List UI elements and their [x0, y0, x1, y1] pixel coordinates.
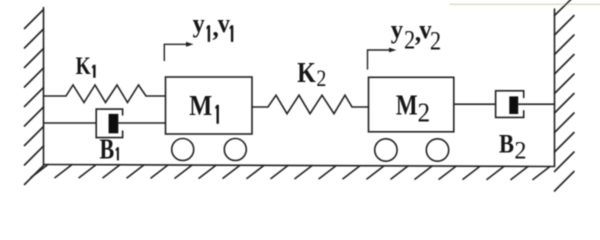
svg-text:M: M: [189, 89, 212, 121]
damper B1 piston: [109, 114, 119, 133]
damper B2 cylinder: [496, 91, 524, 118]
mass M2: [369, 77, 454, 132]
label B2: [499, 130, 527, 165]
mass M1: [166, 77, 253, 134]
damper B2 piston: [509, 96, 518, 114]
wheel M1 left: [172, 139, 194, 161]
decorative khaki line top right: [450, 3, 600, 5]
damper B2 rod left: [454, 103, 496, 105]
damper B1 cylinder: [96, 109, 122, 138]
arrow y2,v2: [368, 48, 397, 69]
label K1: [76, 52, 96, 80]
right wall: [554, 9, 556, 166]
wheel M1 right: [224, 139, 246, 161]
svg-text:2: 2: [404, 26, 415, 55]
damper B1 rod right: [118, 122, 165, 124]
left wall hatching: [25, 10, 44, 185]
svg-text:2: 2: [514, 137, 526, 165]
right wall hatching: [555, 0, 575, 191]
svg-text:B: B: [100, 133, 115, 166]
damper B1 rod left: [44, 122, 96, 124]
svg-text:K: K: [297, 58, 316, 89]
label y2,v2: [391, 14, 441, 56]
svg-text:M: M: [396, 89, 418, 121]
label M1: [189, 89, 219, 124]
svg-text:B: B: [499, 130, 514, 159]
svg-text:y: y: [391, 14, 404, 44]
damper B2 rod right: [518, 103, 554, 105]
floor: [44, 165, 555, 167]
svg-text:2: 2: [316, 66, 326, 92]
arrow y1,v1: [164, 42, 193, 61]
label M2: [396, 89, 430, 128]
svg-text:2: 2: [430, 27, 441, 56]
svg-text:2: 2: [418, 96, 431, 127]
spring K1: [44, 85, 165, 103]
floor hatching: [31, 165, 550, 180]
wheel M2 right: [426, 139, 448, 161]
left wall: [43, 8, 45, 166]
svg-text:K: K: [76, 52, 91, 80]
label y1,v1: [193, 10, 234, 42]
spring K2: [252, 95, 369, 114]
svg-text:v: v: [218, 10, 231, 38]
wheel M2 left: [375, 139, 397, 161]
label B1: [100, 133, 119, 166]
svg-text:y: y: [193, 10, 206, 38]
label K2: [297, 58, 326, 92]
